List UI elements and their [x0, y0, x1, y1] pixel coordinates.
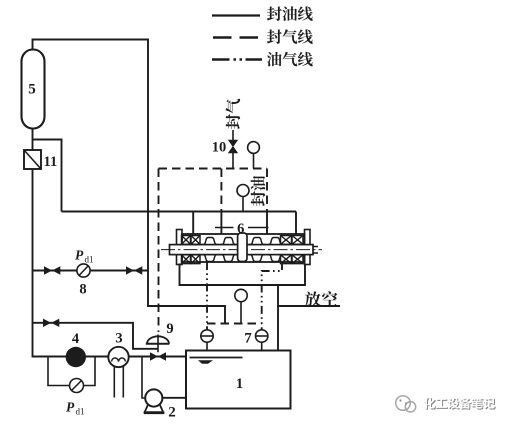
liquid level line [190, 357, 243, 359]
pump 2 [145, 404, 164, 413]
bypass loop with gauge Pd1 [48, 357, 95, 386]
seal gas dashed drop left to funnel [158, 169, 160, 333]
oil-gas dashed drain to gauge 7a [206, 262, 208, 330]
cooler water legs [114, 367, 123, 398]
wire: down to pump [142, 357, 147, 399]
seal gas dashed manifold top [159, 168, 268, 170]
labyrinth seals top [202, 237, 219, 244]
compressor casing [182, 234, 305, 262]
svg-text:P: P [75, 248, 84, 263]
bearing blocks bottom-right [281, 255, 292, 264]
bearing blocks bottom-left [182, 255, 191, 264]
funnel 9 dome [147, 336, 169, 344]
gauge 8 (slashed circle) [77, 264, 90, 277]
shaft centerline [161, 249, 322, 251]
valve left [44, 266, 60, 274]
label 放空 [305, 291, 321, 306]
legend label 封气线 [267, 29, 313, 44]
lower seal-drain box [180, 264, 306, 286]
wire: oil header y=211.5 with drops into machine [62, 212, 297, 235]
orifice 7a [201, 330, 213, 342]
tank 5 (overhead seal oil tank) [22, 50, 45, 129]
wire: pump to tank [162, 397, 186, 399]
gauge (seal oil) [237, 185, 249, 197]
svg-text:2: 2 [168, 405, 176, 421]
wire: bypass y=322.8 [33, 323, 159, 349]
svg-text:9: 9 [166, 321, 173, 337]
labyrinth seals bottom [202, 255, 219, 262]
seal gas dashed drop mid [220, 169, 222, 212]
shaft [170, 245, 314, 255]
label 封气 (rotated) [226, 99, 241, 129]
svg-text:1: 1 [236, 376, 244, 392]
svg-text:5: 5 [28, 82, 36, 98]
wire: gauge line y=270.5 [33, 270, 149, 272]
vent feed line down to tank [277, 285, 279, 351]
valve right [126, 266, 142, 274]
svg-text:d1: d1 [85, 255, 94, 265]
valve 10 [229, 140, 238, 153]
seal gas dashed drop right [266, 169, 268, 212]
legend solid line (seal oil) [212, 14, 260, 16]
svg-text:P: P [66, 400, 75, 415]
svg-text:7: 7 [244, 331, 252, 347]
oil-gas dash-dot drain with jog to gauge 7b [262, 262, 282, 330]
wire: gas inlet [232, 130, 234, 169]
legend label 封油线 [267, 6, 313, 21]
vent line 放空 [278, 305, 340, 307]
label 6 with leaders [215, 227, 269, 229]
bearing blocks (cross-hatched) top-left [182, 236, 191, 245]
watermark logo circles [396, 396, 416, 412]
thrust collar (center) [238, 233, 247, 262]
drain valve (bowtie) [150, 352, 166, 360]
svg-text:4: 4 [72, 331, 79, 347]
bypass valve [43, 319, 59, 327]
left end cap [177, 230, 183, 265]
cooler 3 [108, 347, 128, 367]
orifice 7b [256, 330, 268, 342]
wire: branch from left line to mid riser [33, 140, 62, 212]
legend dash-dot-dot line (oil-gas) [212, 58, 262, 61]
watermark text 化工设备笔记 [424, 397, 496, 410]
svg-text:8: 8 [79, 282, 86, 298]
oil tank 1 [186, 351, 291, 409]
svg-text:10: 10 [212, 140, 227, 156]
bearing blocks top-right [281, 236, 292, 245]
wire: tank bottom down to filter and main left line [33, 128, 187, 357]
gauge (seal gas pressure) [248, 142, 260, 154]
vent gauge circle [235, 289, 247, 301]
label 封油 (rotated) [251, 176, 266, 206]
filter 11 [24, 150, 41, 169]
legend dashed line (seal gas) [213, 36, 258, 39]
legend label 油气线 [267, 52, 313, 67]
wire: tank top to overhead line and down right side [33, 40, 226, 325]
svg-text:11: 11 [44, 154, 58, 170]
collector dashed connector [207, 323, 262, 325]
svg-text:3: 3 [115, 331, 122, 347]
accumulator 4 (filled) [66, 347, 86, 367]
svg-text:d1: d1 [76, 407, 85, 417]
right end cap [305, 230, 311, 265]
